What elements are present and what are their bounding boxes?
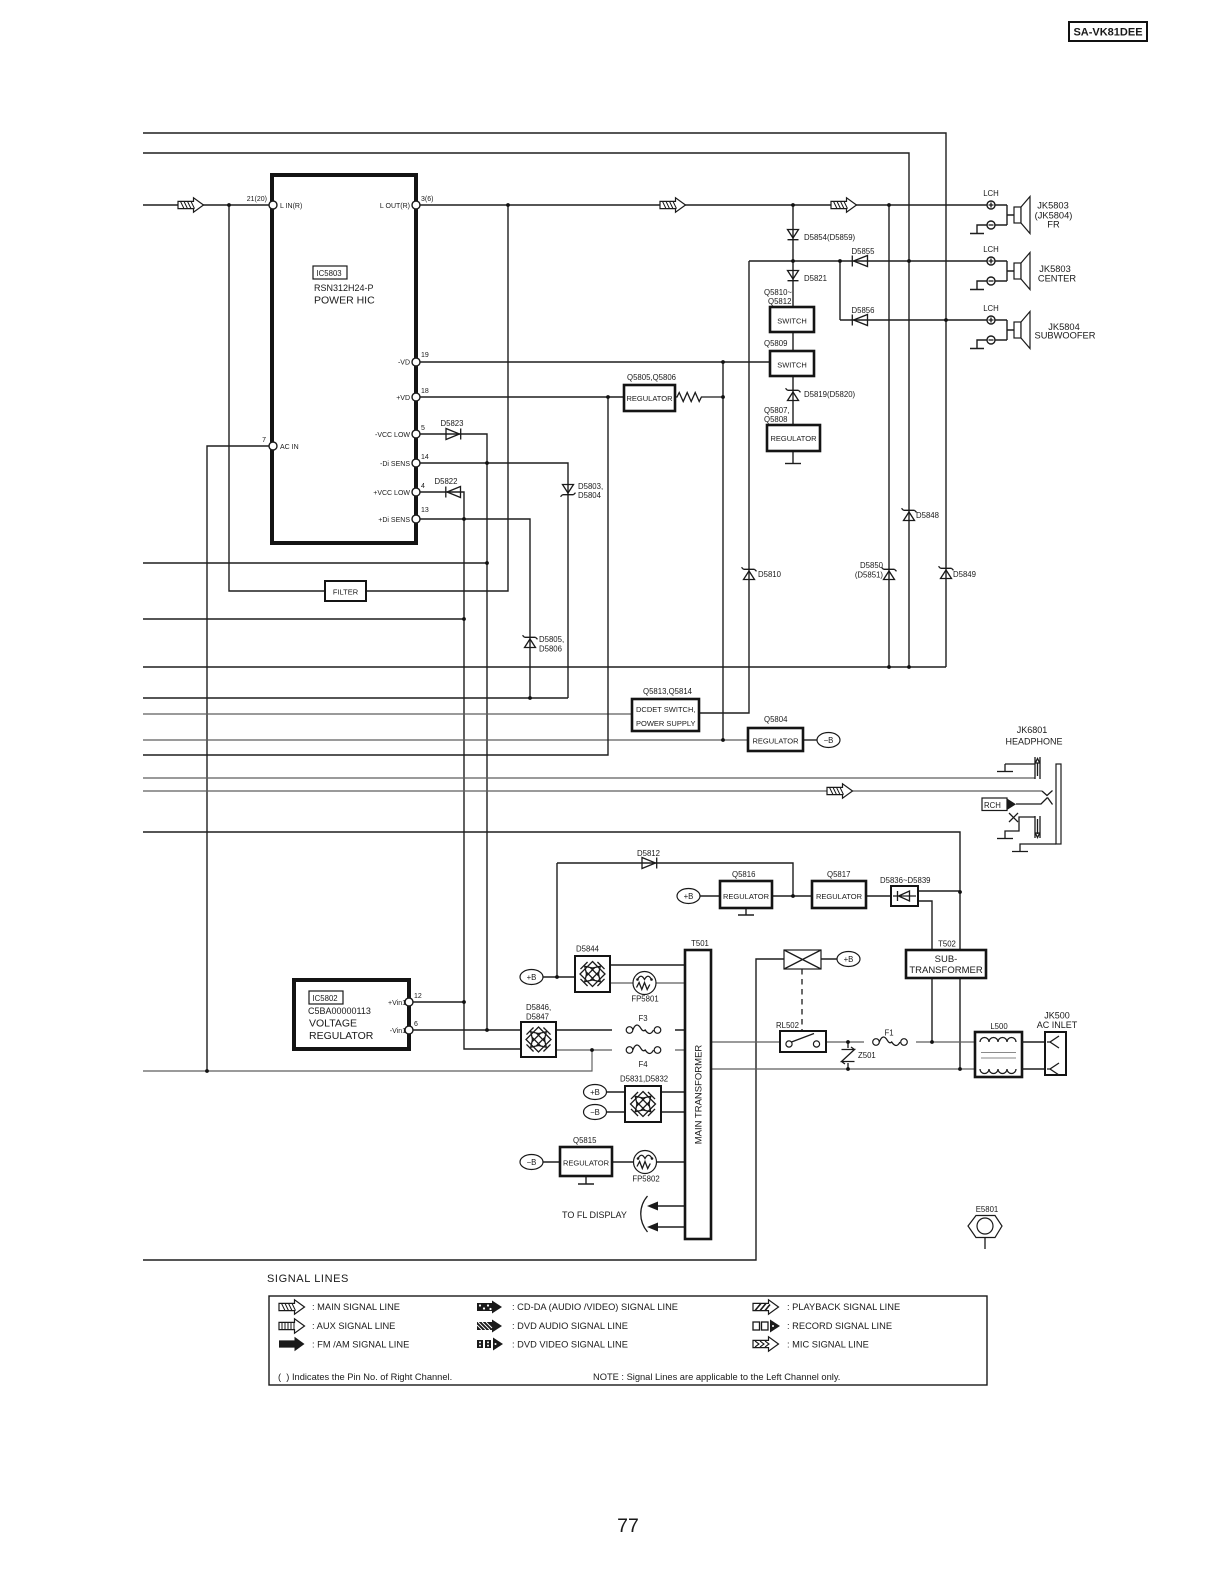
svg-text:: FM /AM SIGNAL LINE: : FM /AM SIGNAL LINE <box>312 1340 409 1350</box>
ground at headphone top contact <box>997 771 1013 773</box>
svg-text:D5810: D5810 <box>758 570 782 579</box>
wire: D5844 outputs to T501 <box>610 964 685 966</box>
svg-text:Q5812: Q5812 <box>768 297 791 306</box>
legend icon: playback signal line <box>753 1300 779 1314</box>
svg-text:F3: F3 <box>638 1014 647 1023</box>
diode D5821 <box>788 271 799 281</box>
wire: bus line y832 down x960 through T502 <box>143 832 960 1069</box>
svg-text:D5806: D5806 <box>539 645 562 654</box>
svg-text:: PLAYBACK SIGNAL LINE: : PLAYBACK SIGNAL LINE <box>787 1302 900 1312</box>
main signal arrow before speakers <box>831 198 857 212</box>
wire: D5850 branch x889 <box>888 205 890 667</box>
svg-text:FILTER: FILTER <box>333 588 359 597</box>
wire: bus line y714 to DCDET SWITCH <box>143 713 632 715</box>
svg-text:: DVD AUDIO SIGNAL LINE: : DVD AUDIO SIGNAL LINE <box>512 1321 628 1331</box>
svg-text:D5847: D5847 <box>526 1013 549 1022</box>
svg-text:HEADPHONE: HEADPHONE <box>1005 737 1062 747</box>
wire: -VCC LOW pin 5 through D5823 down x487 to -Vin1 <box>420 434 487 1030</box>
bridge rectifier D5831,D5832 <box>625 1086 661 1122</box>
main signal arrow after L OUT <box>660 198 686 212</box>
node +B at D5831 <box>584 1085 607 1100</box>
wire: +B riser x557 to D5844 input <box>543 863 575 977</box>
svg-text:D5819(D5820): D5819(D5820) <box>804 390 856 399</box>
svg-text:D5821: D5821 <box>804 274 827 283</box>
svg-text:Q5813,Q5814: Q5813,Q5814 <box>643 687 693 696</box>
svg-text:RCH: RCH <box>984 801 1001 810</box>
svg-text:13: 13 <box>421 507 429 514</box>
wire: main signal line to FR speaker <box>143 204 987 206</box>
diode block D5836~D5839 <box>891 886 918 906</box>
svg-text:T501: T501 <box>691 939 709 948</box>
wire: bus line y778 to headphone jack contact <box>143 777 1035 779</box>
zener diode D5850(D5851) <box>882 567 897 579</box>
svg-text:SA-VK81DEE: SA-VK81DEE <box>1073 27 1142 39</box>
fuse F4 <box>626 1045 661 1053</box>
svg-text:: AUX SIGNAL LINE: : AUX SIGNAL LINE <box>312 1321 395 1331</box>
wire: D5810 branch x749 to DCDET right <box>699 261 749 713</box>
svg-text:Q5807,: Q5807, <box>764 406 790 415</box>
svg-text:VOLTAGE: VOLTAGE <box>309 1018 357 1030</box>
regulator Q5807,Q5808 box <box>767 425 820 451</box>
svg-text:NOTE : Signal Lines are applic: NOTE : Signal Lines are applicable to th… <box>593 1372 840 1382</box>
headphone jack switch contact (L) <box>1042 791 1053 796</box>
legend icon: mic signal line <box>753 1337 779 1351</box>
main signal arrow on headphone line <box>827 784 853 798</box>
svg-text:4: 4 <box>421 483 425 490</box>
svg-text:JK6801: JK6801 <box>1017 725 1048 735</box>
svg-text:C5BA00000113: C5BA00000113 <box>308 1006 371 1016</box>
svg-text:: CD-DA (AUDIO /VIDEO) SIGNAL: : CD-DA (AUDIO /VIDEO) SIGNAL LINE <box>512 1302 678 1312</box>
wire: D5831 bridge rows <box>607 1092 686 1112</box>
svg-text:D5844: D5844 <box>576 945 600 954</box>
dashed link degauss coil to relay RL502 <box>801 969 803 1031</box>
wire: degauss coil row to +B and riser x756 down to bottom line <box>143 959 837 1260</box>
svg-text:L IN(R): L IN(R) <box>280 203 302 210</box>
legend icon: aux signal line <box>279 1319 305 1333</box>
svg-text:SUB-: SUB- <box>935 954 958 965</box>
svg-text:: MAIN SIGNAL LINE: : MAIN SIGNAL LINE <box>312 1302 400 1312</box>
svg-text:12: 12 <box>414 993 422 1000</box>
regulator Q5815 box <box>560 1147 612 1176</box>
zener diode D5848 <box>902 508 917 520</box>
svg-text:LCH: LCH <box>983 245 999 254</box>
wire: bus line y698 <box>143 697 568 699</box>
wire: RCH lever to jack <box>1016 798 1053 805</box>
legend icon: FM/AM signal line <box>279 1337 305 1351</box>
svg-text:7: 7 <box>262 437 266 444</box>
svg-text:−B: −B <box>527 1158 537 1167</box>
X mark on lower contact <box>1009 813 1018 822</box>
wire: -VD pin 19 to SWITCH Q5809 <box>420 361 770 363</box>
fuse F3 <box>626 1025 661 1033</box>
node -B at D5831 <box>584 1105 607 1120</box>
wire: bus line y755 up x608 to +VD node <box>143 397 608 755</box>
relay RL502 <box>780 1031 826 1052</box>
IC5802 designator and part labels <box>308 991 374 1042</box>
junction dots <box>227 203 231 207</box>
svg-text:IC5802: IC5802 <box>313 994 338 1003</box>
svg-text:+B: +B <box>844 955 854 964</box>
svg-text:DCDET SWITCH,: DCDET SWITCH, <box>636 705 695 714</box>
IC pin circles <box>269 201 277 209</box>
svg-text:L OUT(R): L OUT(R) <box>380 203 410 210</box>
svg-text:F4: F4 <box>638 1060 648 1069</box>
node -B at Q5804 <box>817 733 840 748</box>
speaker JK5803 (JK5804) FR <box>970 197 1030 234</box>
svg-text:D5849: D5849 <box>953 570 976 579</box>
wire: -Vin1 pin 6 row to bridge D5846 <box>409 1029 521 1031</box>
svg-text:FP5801: FP5801 <box>631 995 658 1004</box>
resistor after REGULATOR Q5805 <box>675 393 723 402</box>
headphone jack top contact <box>1005 757 1040 779</box>
diode D5854(D5859) <box>788 230 799 240</box>
wire: bottom bus y1071 up to F4 node <box>143 1050 592 1071</box>
svg-text:RL502: RL502 <box>776 1021 799 1030</box>
svg-text:D5848: D5848 <box>916 511 939 520</box>
thermal protector FP5802 <box>634 1151 657 1174</box>
svg-text:-VD: -VD <box>398 360 410 367</box>
op-amp IC5803 POWER HIC box <box>272 175 416 543</box>
svg-text:D5836~D5839: D5836~D5839 <box>880 876 931 885</box>
wire: top bus line B to D5848 branch <box>143 153 909 667</box>
svg-text:AC INLET: AC INLET <box>1037 1020 1078 1030</box>
node +B at D5844 <box>520 970 543 985</box>
bridge rectifier D5844 <box>575 956 610 992</box>
svg-text:5: 5 <box>421 425 425 432</box>
svg-text:REGULATOR: REGULATOR <box>816 892 863 901</box>
diode D5855 <box>852 256 867 267</box>
svg-text:: DVD VIDEO SIGNAL LINE: : DVD VIDEO SIGNAL LINE <box>512 1340 628 1350</box>
svg-text:D5823: D5823 <box>441 419 464 428</box>
svg-text:POWER SUPPLY: POWER SUPPLY <box>636 719 695 728</box>
svg-text:+B: +B <box>590 1088 600 1097</box>
svg-text:JK500: JK500 <box>1044 1011 1070 1021</box>
svg-text:D5822: D5822 <box>435 477 458 486</box>
speaker JK5804 SUBWOOFER <box>970 312 1030 349</box>
svg-text:L500: L500 <box>990 1022 1008 1031</box>
svg-text:TO FL DISPLAY: TO FL DISPLAY <box>562 1210 627 1220</box>
wire: D5812 row from +B riser to Q5816/Q5817 node <box>557 863 793 896</box>
svg-text:: RECORD SIGNAL LINE: : RECORD SIGNAL LINE <box>787 1321 892 1331</box>
main signal arrow at input <box>178 198 204 212</box>
IC5803 designator and part labels <box>313 266 375 307</box>
node +B at Q5816 <box>677 889 700 904</box>
svg-text:-Di SENS: -Di SENS <box>380 461 410 468</box>
svg-text:SUBWOOFER: SUBWOOFER <box>1035 331 1096 341</box>
svg-text:D5831,D5832: D5831,D5832 <box>620 1075 668 1084</box>
regulator Q5817 box <box>812 881 866 908</box>
AC inlet JK500 connector <box>1022 1032 1066 1075</box>
svg-text:−B: −B <box>824 736 834 745</box>
svg-text:REGULATOR: REGULATOR <box>627 394 674 403</box>
zener diode D5819(D5820) <box>786 388 801 400</box>
headphone jack JK6801 body <box>1056 764 1061 844</box>
regulator Q5816 box <box>720 881 772 908</box>
node -B at Q5815 <box>520 1155 543 1170</box>
ground under REGULATOR Q5816 <box>738 908 754 915</box>
wire: +Vin1 pin 12 row <box>409 1001 464 1003</box>
wire: FILTER output up to L OUT node <box>366 205 508 591</box>
surge absorber Z501 <box>842 1042 855 1069</box>
svg-text:CENTER: CENTER <box>1038 274 1077 284</box>
wire: AC IN pin 7 down to bottom bus <box>207 446 273 1071</box>
wire: lower AC row T501 to L500 <box>711 1068 975 1070</box>
svg-text:Q5816: Q5816 <box>732 870 755 879</box>
svg-text:18: 18 <box>421 388 429 395</box>
wire: -B to Q5815 to FP5802 to T501 <box>543 1161 685 1163</box>
diode D5822 <box>446 487 461 498</box>
svg-text:D5803,: D5803, <box>578 482 603 491</box>
svg-text:SWITCH: SWITCH <box>777 317 807 326</box>
legend icon: record signal line <box>753 1320 780 1333</box>
fuse F1 <box>873 1037 908 1045</box>
diode D5856 <box>852 315 867 326</box>
svg-text:( ) Indicates the Pin No. of: ( ) Indicates the Pin No. of Right Chann… <box>278 1372 452 1382</box>
wire: Q5816 to Q5817 <box>772 895 812 897</box>
svg-text:F1: F1 <box>884 1029 893 1038</box>
svg-text:RSN312H24-P: RSN312H24-P <box>314 283 374 293</box>
wire: center-speaker row y261 <box>749 260 987 262</box>
svg-text:D5846,: D5846, <box>526 1003 551 1012</box>
wire: D5854/D5821 branch from main line to SWITCH chain <box>792 205 794 463</box>
bridge rectifier D5846,D5847 <box>521 1022 556 1057</box>
svg-text:14: 14 <box>421 454 429 461</box>
svg-text:SWITCH: SWITCH <box>777 361 807 370</box>
svg-text:Q5804: Q5804 <box>764 715 788 724</box>
wire: -Di SENS pin 14 to D5803 branch <box>420 463 568 698</box>
zener diode D5805,D5806 <box>523 635 538 647</box>
wire: bridge D5846 outputs through F3/F4 to T501 <box>556 1029 685 1031</box>
svg-text:-VCC LOW: -VCC LOW <box>375 432 410 439</box>
wire: D5856 drop and subwoofer row y320 <box>840 261 987 320</box>
svg-text:Q5817: Q5817 <box>827 870 850 879</box>
svg-text:REGULATOR: REGULATOR <box>309 1030 374 1042</box>
wire: +VD pin 18 to REGULATOR Q5805 <box>420 396 624 398</box>
svg-text:+B: +B <box>684 892 694 901</box>
svg-text:JK5803: JK5803 <box>1037 201 1069 211</box>
node RCH <box>982 798 1016 811</box>
svg-text:Z501: Z501 <box>858 1051 876 1060</box>
switch Q5810-Q5812 box <box>770 307 814 332</box>
svg-text:D5805,: D5805, <box>539 635 564 644</box>
terminal E5801 <box>968 1216 1002 1250</box>
wire: bus line y563 <box>143 562 487 564</box>
svg-text:REGULATOR: REGULATOR <box>563 1159 610 1168</box>
wire: T501 secondary row to RL502 / F1 / L500 <box>711 1041 975 1043</box>
legend icon: DVD video signal line <box>477 1338 503 1351</box>
headphone jack lower contact with break symbol <box>1005 816 1040 838</box>
regulator Q5805,Q5806 box <box>624 385 675 411</box>
svg-text:+Di SENS: +Di SENS <box>378 517 410 524</box>
ground at headphone lower contact <box>997 838 1013 840</box>
svg-text:E5801: E5801 <box>976 1205 999 1214</box>
legend icon: DVD audio signal line <box>477 1320 502 1333</box>
degauss coil crossed box <box>784 950 821 969</box>
svg-text:LCH: LCH <box>983 304 999 313</box>
wire: bus line y740 to REGULATOR Q5804 <box>143 739 748 741</box>
legend icon: CD-DA signal line <box>477 1301 502 1314</box>
svg-text:+B: +B <box>527 973 537 982</box>
svg-text:(D5851): (D5851) <box>855 571 884 580</box>
svg-text:Q5809: Q5809 <box>764 339 787 348</box>
wire: +B to REGULATOR Q5816 <box>700 895 720 897</box>
svg-text:FR: FR <box>1047 220 1060 230</box>
main transformer T501 box <box>685 950 711 1239</box>
svg-text:-Vin1: -Vin1 <box>390 1028 406 1035</box>
svg-text:Q5810~: Q5810~ <box>764 288 792 297</box>
svg-text:IC5803: IC5803 <box>317 269 342 278</box>
svg-text:+Vin1: +Vin1 <box>388 1000 406 1007</box>
svg-text:REGULATOR: REGULATOR <box>723 892 770 901</box>
svg-text:19: 19 <box>421 352 429 359</box>
node +B at degauss coil <box>837 952 860 967</box>
zener diode D5849 <box>939 566 954 578</box>
regulator Q5804 box <box>748 728 803 751</box>
zener diode D5810 <box>742 567 757 579</box>
svg-text:D5812: D5812 <box>637 849 660 858</box>
IC5802 VOLTAGE REGULATOR box <box>294 980 409 1049</box>
svg-text:+VD: +VD <box>396 395 410 402</box>
wire: top bus line A to D5849 branch <box>143 133 946 667</box>
svg-text:D5850: D5850 <box>860 561 884 570</box>
wire: bus line y619 <box>143 618 464 620</box>
speaker JK5803 CENTER <box>970 253 1030 290</box>
wire: vertical x723 from -VD line to Q5804 input <box>722 362 724 740</box>
legend icon: main signal line <box>279 1300 305 1314</box>
sub-transformer T502 box <box>906 950 986 978</box>
svg-text:REGULATOR: REGULATOR <box>753 737 800 746</box>
diode D5812 <box>642 858 657 869</box>
wire: Q5817 to D5836 block <box>866 895 891 897</box>
svg-text:MAIN TRANSFORMER: MAIN TRANSFORMER <box>694 1045 705 1145</box>
svg-text:REGULATOR: REGULATOR <box>771 434 818 443</box>
svg-text:Q5815: Q5815 <box>573 1136 597 1145</box>
svg-text:TRANSFORMER: TRANSFORMER <box>909 965 983 976</box>
svg-text:D5856: D5856 <box>852 306 875 315</box>
svg-text:77: 77 <box>617 1515 639 1537</box>
DCDET switch power supply Q5813,Q5814 box <box>632 699 699 731</box>
switch Q5809 box <box>770 351 814 376</box>
ground under REGULATOR Q5815 <box>578 1176 594 1184</box>
svg-text:6: 6 <box>414 1021 418 1028</box>
wire: D5836 outputs to riser and T502 <box>918 891 960 1042</box>
headphone jack sleeve to ground <box>1012 844 1056 852</box>
zener diode D5803,D5804 <box>561 485 576 497</box>
thermal protector FP5801 <box>633 972 656 995</box>
svg-text:LCH: LCH <box>983 189 999 198</box>
filter box <box>325 581 366 601</box>
diode D5823 <box>446 429 461 440</box>
wire: +Di SENS pin 13 to D5805 branch <box>420 519 530 698</box>
svg-text:Q5808: Q5808 <box>764 415 787 424</box>
svg-text:D5854(D5859): D5854(D5859) <box>804 233 856 242</box>
svg-text:POWER HIC: POWER HIC <box>314 295 375 307</box>
wire: +VCC LOW pin 4 through D5822 down x464 to +Vin1 and bridge D5846 <box>420 492 521 1049</box>
TO FL DISPLAY arrows <box>658 1206 685 1227</box>
svg-text:FP5802: FP5802 <box>632 1175 659 1184</box>
svg-text:SIGNAL LINES: SIGNAL LINES <box>267 1273 349 1285</box>
svg-text:D5804: D5804 <box>578 491 602 500</box>
svg-text:21(20): 21(20) <box>247 196 267 203</box>
svg-text:−B: −B <box>590 1108 600 1117</box>
title box SA-VK81DEE <box>1069 22 1147 41</box>
line filter L500 <box>975 1032 1022 1077</box>
ground under REGULATOR Q5807 <box>785 463 801 465</box>
legend box <box>269 1296 987 1385</box>
svg-text:T502: T502 <box>938 940 956 949</box>
wire: bus line y791 to headphone jack switch <box>143 790 1042 792</box>
wire: Q5804 output to -B <box>803 739 817 741</box>
svg-text:: MIC SIGNAL LINE: : MIC SIGNAL LINE <box>787 1340 869 1350</box>
svg-text:AC IN: AC IN <box>280 444 299 451</box>
svg-text:JK5803: JK5803 <box>1039 264 1071 274</box>
wire: L IN node down to FILTER input <box>229 205 325 591</box>
svg-text:D5855: D5855 <box>852 247 876 256</box>
svg-text:Q5805,Q5806: Q5805,Q5806 <box>627 373 676 382</box>
svg-text:3(6): 3(6) <box>421 196 433 203</box>
wire: bus line y667 <box>143 666 946 668</box>
svg-text:+VCC LOW: +VCC LOW <box>373 490 410 497</box>
